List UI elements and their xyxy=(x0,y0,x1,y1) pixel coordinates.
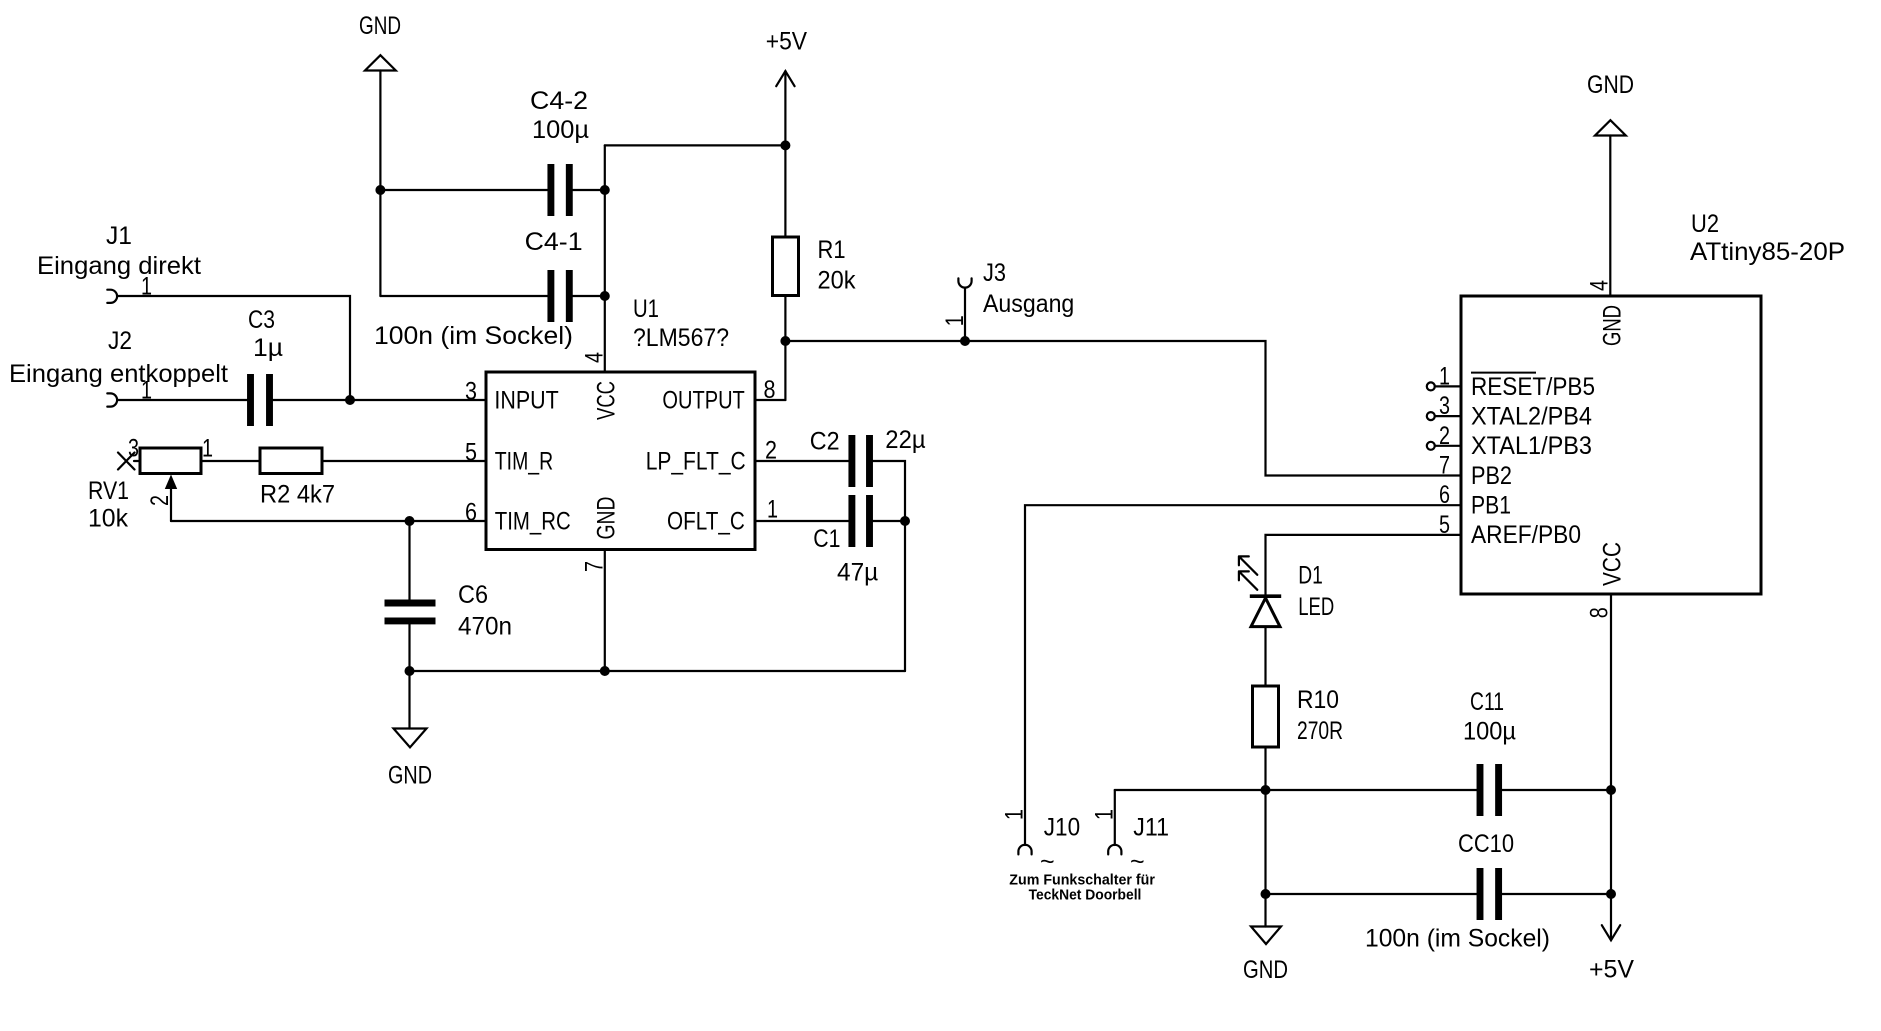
svg-text:J11: J11 xyxy=(1133,814,1169,842)
wire C4-2 right to VCC line xyxy=(569,189,605,191)
svg-text:2: 2 xyxy=(146,495,174,506)
svg-text:5: 5 xyxy=(465,439,477,467)
capacitor C4-1 xyxy=(525,228,583,322)
pin 1 RESET/PB5 with circle and overline xyxy=(1427,362,1595,400)
wire CC10 right to VCC stem xyxy=(1499,893,1611,895)
node junction C4-2/VCC line xyxy=(600,185,610,195)
svg-text:GND: GND xyxy=(1598,305,1626,346)
capacitor C6 470n xyxy=(385,581,513,641)
svg-text:D1: D1 xyxy=(1298,562,1323,590)
pin 5 AREF/PB0 xyxy=(1439,511,1581,549)
node junction C4-1/VCC line xyxy=(600,291,610,301)
svg-text:C2: C2 xyxy=(810,428,840,456)
wire U1 VCC pin4 vertical xyxy=(604,145,606,372)
wire C11 right to VCC stem xyxy=(1499,789,1611,791)
svg-text:J3: J3 xyxy=(983,259,1006,287)
wire C4-1 right to VCC line xyxy=(569,295,605,297)
capacitor CC10 xyxy=(1458,830,1514,920)
wire J2 to C3 xyxy=(117,399,250,401)
node junction J3/OUTPUT net xyxy=(960,336,970,346)
power +5V bottom-right arrow down xyxy=(1589,925,1634,983)
pin 3 XTAL2/PB4 with circle xyxy=(1427,392,1592,430)
connector J11 xyxy=(1108,790,1169,854)
svg-text:AREF/PB0: AREF/PB0 xyxy=(1471,521,1581,549)
pin 7 PB2 xyxy=(1439,452,1512,490)
svg-text:OFLT_C: OFLT_C xyxy=(667,508,745,536)
capacitor C4-2 100u xyxy=(530,87,589,216)
svg-text:LP_FLT_C: LP_FLT_C xyxy=(646,448,746,476)
svg-text:C11: C11 xyxy=(1470,688,1504,716)
ground GND1 top-left xyxy=(359,12,401,71)
svg-text:100µ: 100µ xyxy=(532,116,589,144)
svg-text:1: 1 xyxy=(1001,809,1029,820)
svg-text:270R: 270R xyxy=(1297,717,1343,745)
svg-text:LED: LED xyxy=(1298,593,1334,621)
svg-text:C4-2: C4-2 xyxy=(530,87,588,115)
wire U2 VCC pin8 stem xyxy=(1610,594,1612,940)
wire U2 PB1 pin6 to J10 xyxy=(1025,505,1461,845)
connector J3 Ausgang xyxy=(958,259,1074,341)
wire bottom GND rail xyxy=(410,670,906,672)
svg-text:VCC: VCC xyxy=(593,381,621,420)
svg-text:1: 1 xyxy=(767,496,778,524)
svg-text:R2 4k7: R2 4k7 xyxy=(260,481,335,509)
wire C6 bottom lead xyxy=(408,621,410,671)
svg-text:J1: J1 xyxy=(106,222,132,250)
svg-text:PB2: PB2 xyxy=(1471,462,1512,490)
svg-text:+5V: +5V xyxy=(1589,956,1634,984)
svg-text:7: 7 xyxy=(1439,452,1450,480)
node junction GND/C4-2 xyxy=(375,185,385,195)
connector J1 Eingang direkt xyxy=(37,222,201,303)
capacitor C11 100u xyxy=(1463,688,1516,816)
svg-text:4: 4 xyxy=(1586,280,1614,291)
svg-text:R10: R10 xyxy=(1297,686,1339,714)
svg-text:GND: GND xyxy=(1587,71,1634,99)
svg-text:XTAL2/PB4: XTAL2/PB4 xyxy=(1471,402,1592,430)
ground GND4 top-right xyxy=(1587,71,1634,136)
wire OUTPUT net to J3 xyxy=(785,340,965,342)
wire U1 GND pin7 to rail xyxy=(604,550,606,672)
wire RV1 wiper to TIM_RC net xyxy=(171,520,486,522)
node junction C6/GND rail xyxy=(405,666,415,676)
svg-text:100µ: 100µ xyxy=(1463,718,1516,746)
svg-text:ATtiny85-20P: ATtiny85-20P xyxy=(1690,238,1845,266)
connector J2 Eingang entkoppelt xyxy=(9,327,228,407)
svg-text:8: 8 xyxy=(1586,607,1614,618)
wire J11 corner to C11 xyxy=(1115,789,1480,791)
svg-text:47µ: 47µ xyxy=(837,558,878,586)
resistor R2 4k7 xyxy=(260,448,335,509)
resistor R1 20k xyxy=(773,236,856,296)
wire +5V to R1 top xyxy=(784,145,786,236)
svg-text:U1: U1 xyxy=(633,295,659,323)
wire C6 top lead xyxy=(408,521,410,603)
svg-text:1: 1 xyxy=(202,435,213,463)
node junction C1/C2 vertical xyxy=(900,516,910,526)
capacitor C3 1u xyxy=(248,306,283,426)
svg-text:INPUT: INPUT xyxy=(494,386,558,414)
svg-text:1µ: 1µ xyxy=(253,334,283,362)
svg-text:22µ: 22µ xyxy=(885,426,925,454)
svg-text:+5V: +5V xyxy=(766,27,808,55)
svg-text:J2: J2 xyxy=(108,327,132,355)
svg-text:C6: C6 xyxy=(458,581,488,609)
svg-text:R1: R1 xyxy=(818,236,846,264)
svg-text:5: 5 xyxy=(1439,511,1450,539)
wire U2 GND pin4 stem xyxy=(1609,136,1611,297)
wire C4-1 left branch xyxy=(380,295,551,297)
svg-text:VCC: VCC xyxy=(1598,542,1626,586)
svg-text:CC10: CC10 xyxy=(1458,830,1514,858)
svg-text:20k: 20k xyxy=(818,267,856,295)
svg-text:C3: C3 xyxy=(248,306,275,334)
svg-text:?LM567?: ?LM567? xyxy=(633,324,729,352)
transistor U2 ATtiny85-20P MCU box xyxy=(1461,210,1845,594)
capacitor C1 47u xyxy=(813,495,878,586)
wire J1 to vertical drop xyxy=(117,296,350,400)
svg-text:J10: J10 xyxy=(1044,814,1080,842)
svg-text:6: 6 xyxy=(1439,481,1450,509)
power +5V top xyxy=(766,27,808,145)
svg-text:1: 1 xyxy=(1091,809,1119,820)
svg-text:XTAL1/PB3: XTAL1/PB3 xyxy=(1471,432,1592,460)
svg-text:4: 4 xyxy=(581,352,609,363)
wire U1 pin1 to C1 xyxy=(755,520,852,522)
svg-text:GND: GND xyxy=(1243,956,1288,984)
node junction J1/J2 net xyxy=(345,395,355,405)
resistor R10 270R xyxy=(1253,686,1344,747)
wire C4-2 left branch xyxy=(380,189,551,191)
node junction R10 rail lower xyxy=(1261,889,1271,899)
connector J10 xyxy=(1018,814,1080,855)
wire D1 to R10 xyxy=(1264,627,1266,686)
wire C3 to U1 INPUT pin3 xyxy=(270,399,487,401)
node junction TIM_RC/C6 xyxy=(405,516,415,526)
wire U1 pin2 to C2 xyxy=(755,460,852,462)
wire U1 pin8 to OUTPUT net xyxy=(755,399,785,401)
node junction CC10/VCC xyxy=(1606,889,1616,899)
svg-text:3: 3 xyxy=(1439,392,1450,420)
svg-text:GND: GND xyxy=(593,497,621,540)
svg-text:Ausgang: Ausgang xyxy=(983,290,1074,318)
svg-text:RESET/PB5: RESET/PB5 xyxy=(1471,373,1595,401)
node junction R10/C11 rail xyxy=(1261,785,1271,795)
ground GND3 bottom-right xyxy=(1243,894,1288,984)
label Zum Funkschalter fuer TeckNet Doorbell xyxy=(1009,872,1155,904)
node junction R1/OUTPUT net xyxy=(780,336,790,346)
wire RV1 to R2 xyxy=(201,460,260,462)
svg-text:100n (im Sockel): 100n (im Sockel) xyxy=(1365,925,1550,953)
svg-text:1: 1 xyxy=(941,315,969,326)
node junction C11/VCC xyxy=(1606,785,1616,795)
node junction U1 GND pin7 on rail xyxy=(600,666,610,676)
svg-text:OUTPUT: OUTPUT xyxy=(662,386,744,414)
wire OUTPUT net to U2 PB2 pin7 xyxy=(965,341,1461,476)
node junction +5V rail xyxy=(780,140,790,150)
wire R2 to U1 TIM_R pin5 xyxy=(322,460,486,462)
wire GND1 stem down to C4-1 row xyxy=(379,71,381,297)
svg-text:TIM_R: TIM_R xyxy=(495,448,553,476)
svg-text:RV1: RV1 xyxy=(88,477,129,505)
svg-text:2: 2 xyxy=(1439,422,1450,450)
pin 6 PB1 xyxy=(1439,481,1511,519)
svg-text:470n: 470n xyxy=(458,613,512,641)
diode D1 LED xyxy=(1239,556,1334,626)
svg-text:C1: C1 xyxy=(813,525,840,553)
wire lower rail to CC10 xyxy=(1266,893,1481,895)
svg-text:10k: 10k xyxy=(88,505,128,533)
pin 2 XTAL1/PB3 with circle xyxy=(1427,422,1592,460)
svg-text:GND: GND xyxy=(359,12,401,40)
wire R10 to +5V rail xyxy=(1264,747,1266,894)
wire R1 bottom to OUTPUT net xyxy=(784,297,786,401)
op-amp U1 ?LM567? tone decoder box xyxy=(486,295,755,550)
ground GND2 bottom-left xyxy=(388,671,432,790)
svg-text:1: 1 xyxy=(1439,362,1450,390)
svg-text:PB1: PB1 xyxy=(1471,492,1511,520)
capacitor C2 22u xyxy=(810,426,926,487)
svg-text:3: 3 xyxy=(465,378,477,406)
wire U2 AREF/PB0 pin5 to D1 xyxy=(1266,535,1462,596)
svg-text:U2: U2 xyxy=(1691,210,1719,238)
svg-text:C4-1: C4-1 xyxy=(525,228,583,256)
svg-text:GND: GND xyxy=(388,762,432,790)
svg-text:3: 3 xyxy=(128,435,139,463)
svg-text:6: 6 xyxy=(465,499,477,527)
potentiometer RV1 10k xyxy=(88,448,201,533)
wire top rail to +5V xyxy=(605,144,786,146)
svg-text:TIM_RC: TIM_RC xyxy=(495,508,571,536)
svg-text:Eingang direkt: Eingang direkt xyxy=(37,252,201,280)
svg-text:Eingang entkoppelt: Eingang entkoppelt xyxy=(9,360,228,388)
svg-text:100n (im Sockel): 100n (im Sockel) xyxy=(374,322,573,350)
svg-text:TeckNet Doorbell: TeckNet Doorbell xyxy=(1029,887,1142,904)
wire C2 right to vertical xyxy=(870,461,906,671)
wire C1 right to vertical xyxy=(870,520,906,522)
